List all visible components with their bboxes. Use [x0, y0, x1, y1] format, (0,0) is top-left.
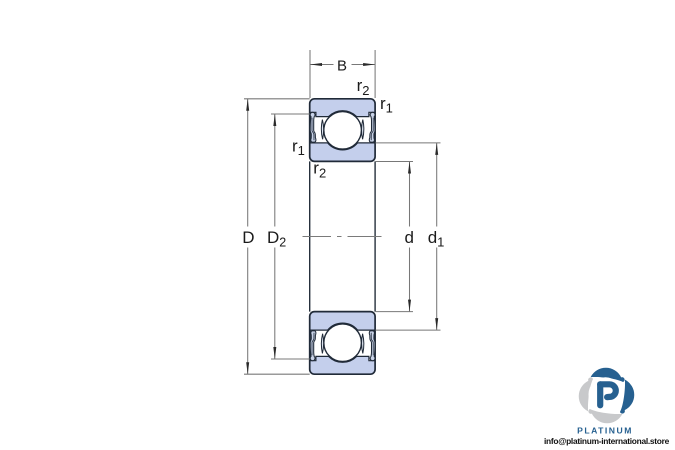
svg-text:PLATINUM: PLATINUM	[577, 426, 633, 436]
petal bottom (gray)	[588, 409, 622, 423]
d1 line	[436, 143, 438, 227]
left half details (seal + cage), mirrored for right	[310, 112, 324, 142]
P stem	[597, 384, 603, 405]
white centre disc	[589, 377, 623, 411]
arrowhead B left	[310, 63, 322, 66]
svg-text:d: d	[405, 228, 414, 247]
B extension lines	[309, 50, 311, 98]
arrowhead D2 top	[273, 114, 276, 126]
petal left (gray)	[579, 377, 593, 411]
arrowhead D2 bottom	[273, 347, 276, 359]
arrowhead B right	[363, 63, 375, 66]
labels	[242, 58, 444, 250]
arrowhead d bottom	[408, 300, 411, 312]
cage crescent	[321, 120, 323, 140]
P bowl	[600, 384, 616, 397]
arrowhead D bottom	[246, 362, 249, 374]
bore line left	[309, 161, 311, 311]
d extension lines	[376, 161, 414, 163]
arrowhead d top	[408, 162, 411, 174]
petal top (blue)	[591, 368, 625, 382]
d1 extension lines	[376, 142, 441, 144]
arrowhead d1 bottom	[435, 318, 438, 330]
D2 line	[274, 114, 276, 227]
D line	[247, 99, 249, 227]
svg-text:r1: r1	[380, 94, 393, 116]
D extension lines	[244, 98, 310, 100]
right seal + cage (mirror of left)	[362, 112, 376, 142]
svg-text:B: B	[337, 58, 347, 75]
d line	[409, 162, 411, 227]
centerline	[303, 236, 382, 238]
ball	[324, 112, 362, 150]
svg-text:info@platinum-international.st: info@platinum-international.store	[544, 436, 670, 446]
arrowhead D top	[246, 99, 249, 111]
svg-text:r2: r2	[357, 76, 370, 98]
petal right (blue)	[620, 380, 634, 414]
svg-text:d1: d1	[428, 228, 445, 250]
bore line right	[374, 161, 376, 311]
arrowhead d1 top	[435, 143, 438, 155]
seal	[310, 112, 316, 142]
rings body (blue rounded rect)	[310, 99, 375, 162]
svg-text:r1: r1	[292, 137, 305, 159]
D2 extension lines	[271, 113, 310, 115]
svg-text:D: D	[242, 228, 254, 247]
B line	[310, 64, 334, 66]
bottom half = vertical mirror	[310, 312, 375, 375]
cavity between rings	[310, 111, 374, 150]
svg-text:D2: D2	[267, 228, 286, 250]
